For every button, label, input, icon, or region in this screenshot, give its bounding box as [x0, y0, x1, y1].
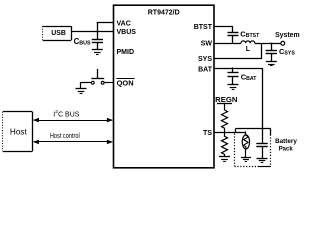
wire QON to chip [104, 82, 113, 84]
svg-text:VAC: VAC [117, 21, 131, 28]
wire VAC stub [97, 22, 114, 24]
svg-text:TS: TS [203, 130, 212, 137]
svg-text:USB: USB [51, 28, 66, 37]
ground (CBAT) [228, 85, 239, 90]
Host control double arrow [33, 140, 114, 144]
svg-text:BTST: BTST [194, 24, 213, 31]
svg-text:PMID: PMID [117, 49, 135, 56]
wire BTST [214, 26, 233, 32]
svg-text:L: L [246, 46, 251, 53]
Host box [3, 112, 33, 152]
ground (CSYS) [266, 62, 277, 66]
wire SYS [214, 58, 262, 60]
USB source box [43, 26, 72, 40]
ground (thermistor) [241, 158, 251, 162]
ground (battery) [257, 159, 268, 163]
net label I2C BUS [53, 109, 80, 118]
thermistor NTC [242, 131, 249, 157]
wire VAC-VBUS-CBUS vertical [97, 22, 99, 39]
svg-text:REGN: REGN [215, 95, 237, 104]
System terminal [275, 32, 300, 45]
IC U1 RT9472/D [114, 5, 215, 168]
battery cell [256, 144, 267, 159]
capacitor CSYS [266, 43, 277, 62]
svg-text:BAT: BAT [198, 67, 213, 74]
wire inductor to System node [255, 43, 281, 45]
wire BAT [214, 68, 263, 144]
ground (CBUS) [92, 50, 103, 55]
label Battery Pack [275, 138, 297, 153]
resistor R2 TS-GND [222, 132, 228, 157]
svg-text:Battery: Battery [275, 138, 297, 145]
wire SYS riser [261, 43, 263, 59]
svg-text:SYS: SYS [198, 56, 212, 63]
svg-text:Pack: Pack [279, 146, 293, 153]
svg-text:VBUS: VBUS [117, 29, 137, 36]
I2C BUS double arrow [33, 118, 114, 122]
capacitor CBAT [228, 68, 239, 85]
svg-text:C BUS: C BUS [58, 112, 80, 119]
battery pack box [235, 129, 271, 167]
svg-text:SW: SW [201, 41, 213, 48]
ground (R2) [219, 157, 230, 162]
ground (switch) [76, 89, 87, 94]
push-button switch S1 on QON [91, 69, 104, 84]
wire TS [214, 132, 246, 134]
inductor L [241, 41, 255, 53]
wire VBUS from USB to chip [71, 31, 113, 33]
wire SW to inductor [214, 43, 241, 45]
pin QON label [116, 78, 134, 87]
svg-text:Host: Host [10, 127, 28, 136]
svg-text:Host control: Host control [50, 133, 80, 140]
svg-text:System: System [275, 32, 300, 39]
svg-text:QON: QON [117, 78, 134, 87]
REGN rail [215, 95, 237, 110]
resistor R1 REGN-TS [222, 110, 228, 132]
capacitor CBTST [228, 33, 239, 44]
svg-text:RT9472/D: RT9472/D [148, 9, 180, 16]
wire switch to ground [81, 82, 92, 88]
capacitor CBUS [92, 40, 103, 50]
